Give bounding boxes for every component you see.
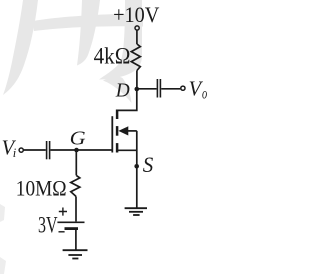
wire node G down to resistor — [75, 150, 77, 175]
svg-text:+10V: +10V — [113, 2, 159, 27]
ground at battery: bar 3 — [72, 258, 78, 260]
resistor R 4k zigzag — [131, 44, 140, 71]
wire terminal to resistor — [136, 30, 138, 44]
wire source contact to rail — [117, 149, 137, 151]
watermark stroke: center vertical — [77, 0, 100, 66]
wire resistor to battery — [75, 196, 77, 221]
input terminal circle — [19, 148, 23, 152]
svg-text:D: D — [115, 80, 130, 101]
wire node D to output capacitor — [137, 88, 157, 90]
wire body to source rail — [128, 130, 137, 132]
wire capacitor to node G — [50, 149, 76, 151]
node S junction dot — [134, 164, 139, 169]
MOSFET source channel bar — [116, 143, 119, 152]
svg-text:S: S — [143, 152, 154, 177]
resistor RG 10M zigzag — [71, 175, 80, 196]
watermark stroke: horizontal bar — [33, 14, 143, 32]
wire capacitor to Vo terminal — [161, 88, 180, 90]
watermark edge mark left middle — [0, 204, 5, 222]
svg-text:10MΩ: 10MΩ — [16, 175, 67, 200]
MOSFET body channel bar — [116, 126, 119, 136]
wire node D down to MOSFET drain — [116, 89, 137, 110]
capacitor Co right plate — [159, 79, 161, 98]
watermark edge mark bottom left — [0, 257, 6, 274]
MOSFET gate bar — [111, 116, 113, 152]
MOSFET drain channel bar — [116, 110, 119, 120]
svg-text:G: G — [70, 127, 86, 149]
svg-text:i: i — [13, 145, 17, 160]
node D junction dot — [135, 87, 140, 92]
battery long plate — [57, 221, 84, 223]
watermark stroke: right vertical with hook — [99, 0, 142, 80]
svg-text:o: o — [202, 85, 207, 102]
output terminal circle — [181, 86, 185, 90]
svg-text:4kΩ: 4kΩ — [94, 43, 131, 69]
watermark stroke: left falling curve — [3, 0, 38, 95]
ground at source: bar 3 — [133, 214, 140, 216]
MOSFET body arrow — [118, 126, 128, 135]
ground at source: bar 1 — [125, 207, 147, 209]
ground at battery: bar 2 — [68, 254, 82, 256]
wire node G to gate — [77, 149, 112, 151]
capacitor Co left plate — [156, 79, 158, 98]
wire battery to ground — [75, 230, 77, 250]
battery plus sign — [59, 208, 67, 216]
node G junction dot — [74, 148, 79, 153]
wire source rail down to ground — [136, 131, 138, 208]
wire input terminal to capacitor — [24, 149, 46, 151]
watermark stroke: hook tail wedge — [103, 77, 132, 103]
supply terminal circle — [135, 26, 139, 30]
battery short plate — [65, 227, 79, 230]
battery minus sign — [59, 231, 65, 233]
svg-text:3V: 3V — [38, 213, 58, 238]
ground at source: bar 2 — [129, 211, 143, 213]
capacitor Ci right plate — [49, 141, 51, 159]
capacitor Ci left plate — [46, 141, 48, 159]
ground at battery: bar 1 — [63, 249, 88, 251]
wire resistor to node D — [136, 71, 138, 90]
